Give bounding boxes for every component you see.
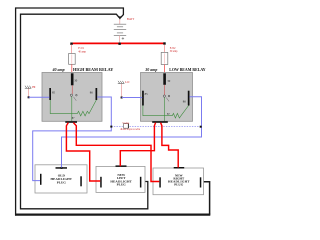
fuse F/02	[161, 52, 168, 64]
old plug top pin	[56, 167, 68, 169]
svg-text:40 amp: 40 amp	[78, 50, 86, 53]
svg-text:30: 30	[74, 79, 78, 83]
relay K2 coil	[143, 106, 189, 119]
wire relay K1 pin 86 to old plug left pin (blue)	[33, 97, 112, 181]
new left plug left pin	[100, 177, 102, 188]
svg-text:PLUG: PLUG	[174, 182, 184, 186]
new right plug right pin	[200, 177, 202, 187]
wire relay K2 87 to new right plug top pin (red)	[161, 123, 179, 168]
svg-text:5 wire: 5 wire	[122, 122, 130, 125]
wire fuse F/02 to relay pin 30	[164, 65, 166, 75]
svg-text:85: 85	[52, 90, 56, 94]
svg-text:LOW BEAM RELAY: LOW BEAM RELAY	[169, 68, 206, 72]
relay K1 wire contact to 87	[71, 97, 73, 122]
battery BATT	[114, 24, 126, 39]
relay K2 pin 86	[188, 91, 190, 106]
old plug right pin	[80, 176, 82, 186]
ground wire from new left headlight plug (inner black loop)	[21, 14, 148, 209]
battery negative arrowhead	[118, 16, 122, 19]
new right plug left pin	[159, 177, 161, 187]
svg-text:PLUG: PLUG	[57, 180, 67, 184]
old headlight plug box	[35, 165, 87, 193]
svg-text:40 amp: 40 amp	[52, 67, 65, 72]
svg-text:86: 86	[183, 100, 187, 104]
relay K1 contact	[70, 94, 72, 96]
node bus left end	[70, 43, 72, 45]
wire HI to relay K1 pin 85 (blue)	[29, 96, 50, 98]
wire battery to red bus	[119, 36, 121, 44]
input HI symbol	[25, 86, 31, 89]
old plug left pin	[40, 174, 42, 185]
wire bus to fuse F/01	[71, 45, 73, 54]
wire relay K2 87 to new left plug top pin (red)	[120, 123, 155, 167]
svg-text:BATT: BATT	[127, 17, 134, 21]
svg-text:30: 30	[167, 79, 171, 83]
wire bus to fuse F/02	[164, 45, 166, 53]
relay K2 pin 85	[142, 91, 144, 106]
relay K1 contact wire	[71, 85, 73, 94]
wire LO input	[121, 84, 123, 98]
wire outer ground left and top run	[16, 8, 124, 216]
new left plug right pin	[140, 177, 142, 188]
wire outer ground bottom run	[15, 214, 210, 216]
wire diode link (dashed blue)	[111, 126, 123, 128]
svg-text:HI: HI	[32, 85, 35, 89]
wire LO to relay K2 pin 85 (blue)	[122, 97, 143, 99]
wire battery top stub	[119, 19, 121, 24]
red power bus wire	[72, 42, 165, 44]
node dashed left	[110, 126, 112, 128]
relay K1 pin 87	[65, 121, 77, 123]
wire relay K2 pin 86 to old plug top pin (blue)	[62, 97, 202, 168]
relay K2 pin 87	[152, 121, 168, 123]
svg-text:HIGH BEAM RELAY: HIGH BEAM RELAY	[73, 67, 113, 72]
relay K2 wire contact to 87	[163, 98, 165, 122]
diode D1	[124, 124, 129, 129]
relay K1 pin 30	[71, 73, 74, 85]
node old plug top pin	[61, 167, 63, 169]
relay K1 pin 85	[49, 88, 51, 100]
wire relay K1 87 to new right plug left pin (red)	[73, 123, 159, 182]
new left headlight plug box	[96, 166, 145, 192]
relay K1 coil	[50, 100, 96, 116]
node LO	[121, 97, 123, 99]
node bus right end	[163, 42, 165, 44]
wire fuse F/01 to relay pin 30	[71, 64, 73, 74]
ground wire from new right headlight plug (outer black loop)	[201, 182, 210, 215]
new left plug top pin	[116, 165, 127, 167]
node HI	[28, 96, 30, 98]
node battery junction	[118, 43, 120, 45]
wire relay K1 87 to new left plug left pin (red)	[66, 123, 100, 181]
relay K1 pin 86	[96, 88, 98, 100]
node dashed right	[200, 126, 202, 128]
input LO symbol	[118, 81, 124, 84]
fuse F/01	[69, 54, 76, 65]
svg-text:86: 86	[90, 91, 94, 95]
svg-text:30 amp: 30 amp	[170, 50, 178, 53]
relay K2 pin 30	[163, 73, 166, 85]
relay K1 high beam relay box	[42, 73, 102, 122]
new right plug top pin	[174, 167, 185, 169]
new right headlight plug box	[153, 168, 204, 195]
relay K2 contact wire	[164, 85, 166, 95]
relay K2 low beam relay box	[141, 73, 193, 122]
svg-text:PLUG: PLUG	[117, 182, 127, 186]
svg-text:30 amp: 30 amp	[144, 67, 157, 72]
relay K2 contact	[163, 95, 165, 97]
wire HI input	[28, 89, 30, 98]
svg-text:diode stops re-wire: diode stops re-wire	[120, 128, 141, 131]
svg-text:85: 85	[145, 92, 149, 96]
